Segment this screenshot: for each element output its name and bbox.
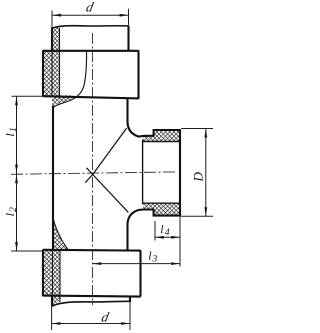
svg-text:d: d [100,309,110,324]
svg-text:d: d [85,0,95,14]
svg-text:D: D [190,172,205,183]
svg-text:l3: l3 [148,248,157,264]
svg-text:l2: l2 [3,207,19,217]
svg-text:l4: l4 [160,222,170,238]
svg-text:l1: l1 [3,127,19,136]
